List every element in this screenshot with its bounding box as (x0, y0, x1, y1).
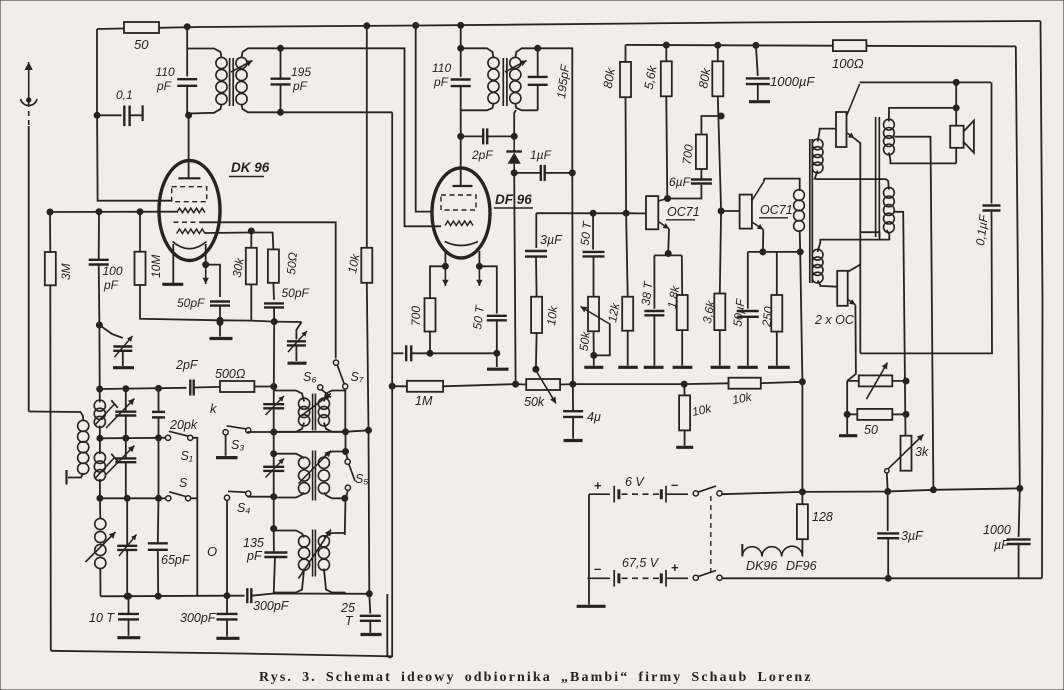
wiper link (594, 324, 610, 355)
wire emitter (762, 230, 764, 252)
wire (572, 384, 574, 411)
capacitor 300pF series (247, 588, 251, 603)
junction (224, 593, 230, 599)
junction (591, 352, 597, 358)
core arrow L3 (85, 532, 115, 562)
wire bottom bus (101, 595, 227, 598)
label 3k (915, 445, 929, 459)
junction (533, 366, 539, 372)
label 128 (812, 510, 833, 524)
svg-text:250: 250 (759, 305, 775, 328)
label 110 pF (156, 65, 175, 79)
resistor 80k (620, 62, 631, 97)
wire (892, 413, 906, 415)
wire (274, 557, 275, 594)
svg-text:25: 25 (340, 601, 355, 615)
junction (663, 42, 669, 48)
wire (122, 351, 124, 366)
wire (280, 48, 282, 78)
resistor 10k (679, 395, 690, 430)
junction (930, 487, 936, 493)
chassis bar (584, 366, 603, 369)
label (433, 75, 449, 89)
wire (392, 352, 403, 354)
junction (623, 210, 629, 216)
label 6V (625, 475, 645, 489)
resistor 250 (771, 295, 782, 332)
wire (761, 382, 803, 383)
switch S4 (224, 491, 251, 500)
junction (1017, 485, 1023, 491)
junction (271, 429, 277, 435)
wiper contact (885, 469, 889, 473)
wire (684, 382, 728, 385)
screen grid DF96 dashed box (441, 195, 476, 210)
svg-text:195: 195 (291, 65, 311, 79)
wire (274, 423, 304, 432)
label 700 (409, 306, 423, 326)
junction (665, 251, 671, 257)
tuning arrow T1 (231, 61, 253, 73)
label 0,1 (116, 88, 133, 102)
transformer T1 secondary coil (236, 57, 247, 104)
wire (430, 266, 445, 298)
wire (242, 104, 281, 112)
svg-text:10M: 10M (149, 255, 163, 278)
label 1000 (983, 523, 1011, 537)
svg-text:50k: 50k (524, 395, 545, 409)
junction (665, 196, 671, 202)
label 65pF (161, 553, 191, 567)
transformer T3 left coil (299, 398, 310, 426)
speaker (950, 121, 974, 153)
wire band bus S1 (100, 437, 166, 440)
svg-text:700: 700 (680, 143, 696, 165)
anode plate DF96 (453, 185, 473, 187)
label 50 (864, 423, 878, 437)
anode plate DK96 (178, 177, 200, 179)
wire osc feedback (273, 322, 275, 387)
label 2 x OC (814, 313, 855, 327)
svg-text:20pk: 20pk (169, 418, 198, 432)
label 10k (544, 304, 560, 326)
wire (719, 330, 721, 365)
wire (479, 266, 496, 313)
wire (684, 430, 686, 445)
oscillator coil L3 (95, 518, 106, 568)
wire emitter bias (654, 254, 681, 256)
wire (324, 533, 346, 538)
wire feedback (991, 82, 993, 203)
svg-text:S₁: S₁ (181, 449, 193, 463)
label 50 T (470, 303, 487, 330)
chassis bar (737, 366, 757, 369)
junction (389, 383, 395, 389)
junction (342, 495, 348, 501)
svg-text:S₇: S₇ (351, 370, 364, 384)
label OC71 (760, 203, 793, 217)
chassis bar (117, 636, 140, 639)
wire antenna lead (28, 126, 30, 412)
wire grid2 exit (205, 233, 273, 250)
wire emitter to 50 block (847, 305, 856, 381)
wire 1M long vertical (387, 112, 392, 657)
transformer T2 secondary coil (510, 57, 521, 103)
ganged switch dashed link (710, 496, 712, 576)
wire (125, 416, 127, 439)
chassis bar (839, 434, 857, 437)
arrow (119, 535, 137, 557)
wire to DF96 screen (416, 26, 433, 212)
wire (887, 538, 889, 578)
wire (747, 252, 749, 309)
junction (885, 575, 891, 581)
battery 6V dashes (622, 493, 660, 495)
svg-text:67,5 V: 67,5 V (622, 556, 660, 570)
switch S5 (345, 459, 355, 490)
battery 67.5V cell (588, 570, 619, 587)
chassis bar (768, 366, 790, 369)
wire (757, 84, 759, 100)
wire (280, 84, 282, 112)
chassis bar (673, 366, 693, 369)
chassis bar (618, 366, 638, 369)
junction (123, 435, 129, 441)
driver transformer core (810, 139, 813, 283)
wire collector (763, 179, 765, 182)
wire (250, 284, 252, 320)
wire (219, 306, 221, 323)
capacitor 135pF (264, 553, 287, 558)
wire (460, 86, 462, 136)
resistor 3.6k (714, 294, 725, 331)
wire (955, 82, 957, 108)
label pF (246, 549, 263, 563)
wire (296, 322, 301, 340)
wire (274, 569, 304, 593)
junction (137, 209, 143, 215)
wire battery positive bus (722, 488, 1020, 494)
label 2pF (471, 148, 493, 162)
resistor 1.8k (677, 295, 688, 330)
wire (1018, 544, 1020, 578)
label 1M (415, 394, 433, 408)
wire (429, 332, 431, 354)
wire (478, 251, 480, 266)
junction (203, 262, 209, 268)
junction (799, 379, 805, 385)
antenna (21, 62, 38, 128)
grid zigzag DF96 (445, 221, 473, 226)
svg-text:pF: pF (156, 79, 172, 93)
label 50pF (177, 296, 205, 310)
potentiometer 50k volume (526, 379, 560, 390)
svg-text:S₄: S₄ (237, 501, 250, 515)
wire base link bottom (818, 281, 838, 287)
wire (295, 345, 297, 361)
arrow (866, 363, 887, 400)
core adjust L1 (95, 400, 118, 425)
wire (344, 498, 347, 535)
label 10M (149, 255, 163, 278)
capacitor 300pF (217, 614, 238, 620)
junction (427, 350, 433, 356)
wire (515, 103, 537, 110)
capacitor 1000uF electrolytic (746, 78, 770, 84)
collector lead (752, 181, 764, 200)
wire (344, 389, 346, 431)
resistor 3M (45, 252, 56, 285)
wire (98, 212, 100, 260)
junction (97, 495, 103, 501)
wire (194, 386, 220, 389)
arrow (106, 446, 135, 475)
capacitor 50pF cathode (210, 302, 230, 306)
junction (511, 170, 517, 176)
resistor 12k (622, 297, 633, 331)
label 135 (243, 536, 264, 550)
wire (720, 211, 721, 294)
svg-text:3M: 3M (59, 263, 73, 280)
chassis bar (676, 446, 693, 449)
svg-text:10k: 10k (544, 304, 560, 326)
junction (885, 489, 891, 495)
arrow (106, 399, 135, 429)
svg-text:1000µF: 1000µF (770, 74, 815, 89)
wire (847, 381, 857, 415)
transistor 2xOC top body (836, 112, 847, 147)
wire (125, 389, 127, 412)
transformer T3 right coil (318, 398, 329, 426)
svg-text:50k: 50k (577, 330, 593, 352)
label 1&#181;F (530, 148, 552, 162)
wire (461, 103, 494, 110)
battery 67.5V cell (661, 570, 688, 587)
wire (701, 116, 721, 135)
screen grids DK96 dashed box (172, 187, 207, 202)
wire (345, 432, 347, 452)
trimmer arrow (115, 336, 133, 357)
wire emitter (667, 229, 670, 254)
underline (494, 207, 533, 209)
ferrite core bar (65, 470, 67, 485)
svg-text:300pF: 300pF (253, 599, 290, 613)
wire (461, 135, 484, 137)
svg-text:300pF: 300pF (180, 611, 217, 625)
wire (681, 330, 683, 365)
chassis bar (216, 456, 238, 459)
junction (366, 427, 372, 433)
capacitor 1uF (541, 165, 545, 181)
junction (186, 112, 192, 118)
core adjust L2 (95, 454, 118, 479)
capacitor 6uF (691, 180, 712, 184)
junction (248, 228, 254, 234)
output transformer core (876, 117, 880, 237)
arrow 3k (888, 435, 924, 470)
wire (99, 389, 101, 403)
resistor 5.6k (661, 61, 672, 96)
switch 67.5V (693, 571, 722, 581)
wire (125, 438, 127, 458)
switch S1 (165, 431, 192, 440)
capacitor 195pF (271, 79, 291, 85)
label 0.1uF (973, 213, 991, 246)
output transformer primary coil (884, 187, 895, 232)
wire output node rail (854, 138, 860, 353)
wire (158, 388, 160, 412)
svg-text:+: + (671, 560, 679, 575)
wire (665, 45, 667, 61)
wire (193, 438, 198, 596)
wire osc bus 1 (100, 388, 187, 389)
resistor 30k (246, 248, 257, 285)
chassis bar (210, 337, 233, 340)
label 6uF (669, 175, 691, 189)
svg-text:100: 100 (103, 264, 123, 278)
wire inner frame right (1016, 46, 1020, 488)
svg-text:µF: µF (994, 538, 1010, 552)
transformer T2 core (503, 58, 507, 106)
junction (124, 495, 130, 501)
label S4 (237, 501, 250, 515)
junction (513, 381, 519, 387)
label S1 (181, 449, 193, 463)
junction (156, 385, 162, 391)
label 195 pF (291, 65, 311, 79)
label - (671, 477, 678, 492)
label 38 T (639, 279, 656, 306)
junction (155, 593, 161, 599)
wire (889, 108, 956, 122)
resistor 128 (797, 504, 808, 539)
screen grid dashed row (174, 221, 201, 223)
wire (324, 452, 346, 459)
capacitor 38T (644, 311, 664, 315)
label k (210, 401, 218, 416)
wire (593, 331, 595, 355)
emitter lead with arrow (847, 133, 855, 139)
svg-text:pF: pF (103, 278, 119, 292)
wire (225, 435, 227, 456)
junction (797, 249, 803, 255)
svg-text:OC71: OC71 (667, 205, 700, 219)
transistor OC71 body (646, 196, 658, 229)
wire (626, 213, 628, 297)
junction (271, 319, 277, 325)
junction (271, 451, 277, 457)
wire tap (860, 232, 879, 239)
wire (226, 619, 228, 636)
junction (681, 381, 687, 387)
junction (184, 24, 190, 30)
junction (760, 249, 766, 255)
label + (594, 478, 602, 493)
wire (799, 230, 802, 252)
wire top supply rail (97, 21, 1041, 29)
label 100 pF (103, 264, 123, 278)
wire (324, 423, 346, 432)
wire (274, 493, 304, 498)
driver transformer secondary bottom coil (812, 249, 823, 283)
svg-text:S₅: S₅ (355, 472, 368, 486)
svg-text:100Ω: 100Ω (832, 56, 864, 71)
label 50 T (578, 219, 595, 246)
junction (953, 105, 959, 111)
wire (274, 454, 304, 459)
trimmer capacitor (117, 546, 137, 550)
svg-text:2pF: 2pF (471, 148, 493, 162)
wire grid1 inside (160, 211, 177, 213)
wire (369, 594, 370, 614)
caption (259, 670, 813, 685)
label 100ohm (832, 56, 864, 71)
wire (776, 332, 778, 366)
transformer T5 right coil (318, 536, 329, 571)
capacitor 25T (360, 616, 381, 621)
wire (627, 331, 629, 366)
wire (157, 498, 160, 543)
wire (187, 86, 188, 116)
junction (511, 133, 517, 139)
wire (535, 333, 538, 369)
transformer T4 core (313, 451, 316, 501)
transformer T1 core (230, 58, 234, 106)
wire collector supply (860, 81, 991, 83)
wire (1019, 488, 1020, 537)
svg-text:6 V: 6 V (625, 475, 645, 489)
capacitor (406, 345, 411, 361)
junction (123, 386, 129, 392)
wire phase link (818, 230, 890, 252)
wire (273, 531, 275, 552)
label 30k (230, 256, 247, 278)
grid 1 zigzag DK96 (177, 208, 205, 213)
wire (892, 380, 906, 382)
junction (715, 42, 721, 48)
capacitor 3uF (525, 251, 547, 257)
label 50 (134, 37, 149, 52)
wire (366, 26, 368, 248)
junction (903, 411, 909, 417)
tuned coil L2 (94, 452, 105, 481)
junction (458, 22, 464, 28)
wire (496, 353, 498, 367)
junction (570, 381, 576, 387)
wire (721, 493, 724, 495)
wire (668, 185, 702, 199)
wire (625, 97, 628, 213)
junction (458, 45, 464, 51)
wire (487, 135, 514, 137)
wire primary center tap (894, 212, 905, 436)
trimmer capacitor (263, 404, 284, 408)
junction (953, 79, 959, 85)
wire (886, 179, 889, 189)
label OC71 (667, 205, 700, 219)
junction (535, 45, 541, 51)
label DF 96 (495, 192, 532, 207)
svg-text:3k: 3k (915, 445, 929, 459)
resistor 1M (407, 381, 443, 392)
svg-text:50: 50 (864, 423, 878, 437)
arrow (266, 396, 285, 415)
wire (346, 490, 348, 498)
svg-text:500Ω: 500Ω (215, 367, 246, 381)
svg-text:3µF: 3µF (540, 233, 563, 247)
wire bottom frame (51, 651, 392, 657)
switch S3 (223, 426, 251, 435)
